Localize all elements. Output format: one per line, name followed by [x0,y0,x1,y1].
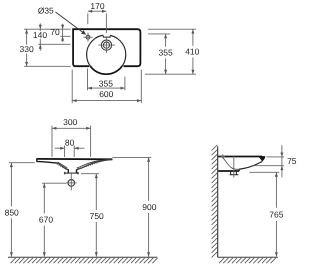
side view: floor line with hatching [218,256,278,258]
svg-text:355: 355 [99,79,113,89]
dim 750 [95,174,97,257]
svg-text:850: 850 [5,207,19,217]
svg-text:355: 355 [159,48,173,58]
dim 900 [148,157,150,256]
front view: trap circle with cross [68,180,75,187]
front view: basin rim and bowl outline [37,158,113,160]
dim 355 (right vertical) [165,34,167,74]
front view: left rim lip band [37,159,58,164]
dim 170 (top) [88,11,107,33]
side view: wall hatching [212,145,218,258]
front view: drain boss and flange [68,169,76,173]
label O35 with leader arrow [38,6,54,16]
dim 140 (left) [39,23,41,50]
svg-text:330: 330 [20,44,34,54]
svg-text:670: 670 [39,215,53,225]
dim 75 [281,145,283,177]
svg-text:750: 750 [90,211,104,221]
dim 70 (left) [62,24,64,42]
plan view: faucet hole cross (O35) [86,35,90,39]
left reference lines [24,29,71,66]
svg-text:600: 600 [99,89,113,99]
svg-text:765: 765 [269,209,283,219]
dim 670 [43,183,45,256]
plan view: drain with concentric circles and crosshair [101,40,111,50]
dim 355 (bottom of plan) [88,69,125,91]
side view: solid beak tip wedge [258,156,266,161]
side view reference line for 765 [249,171,279,173]
front view: floor line with hatching [8,256,157,258]
dim 410 (right vertical) [192,29,194,74]
side view reference lines for 75 [253,157,285,166]
front view: hatch on bowl underside [57,159,105,170]
side view: drain center line [233,155,235,177]
svg-text:75: 75 [287,156,297,166]
plan view: overflow notch at bowl top [103,33,110,37]
dim 80 (front view) [55,146,85,158]
plan view: bowl lower arc (thick, outside rectangle) [90,66,122,74]
dim 600 (bottom of plan) [72,70,141,104]
dim 765 [275,172,277,256]
plan view: bowl circle [87,35,126,74]
right reference lines for 355/410 [145,29,196,74]
side view: drain stub [230,172,239,175]
dim 300 (front view top) [52,126,91,157]
svg-text:170: 170 [90,1,104,11]
side view: faucet cross on rim [221,154,225,158]
svg-text:Ø35: Ø35 [38,6,54,16]
side view: inner bowl curve [223,157,240,169]
dim 330 (left) [26,29,28,66]
side view: basin profile (rim, beak tip, underside, bottom) [218,157,262,172]
svg-text:70: 70 [50,27,60,37]
side view: wall line [217,146,219,257]
svg-text:410: 410 [185,47,199,57]
dim 850 [10,163,12,257]
svg-text:140: 140 [33,30,47,40]
plan view: basin outline rectangle [73,28,140,66]
front view reference lines [9,157,151,183]
front view: inner bowl line [58,160,111,169]
svg-text:900: 900 [142,202,156,212]
svg-text:300: 300 [63,117,77,127]
svg-text:80: 80 [65,137,75,147]
